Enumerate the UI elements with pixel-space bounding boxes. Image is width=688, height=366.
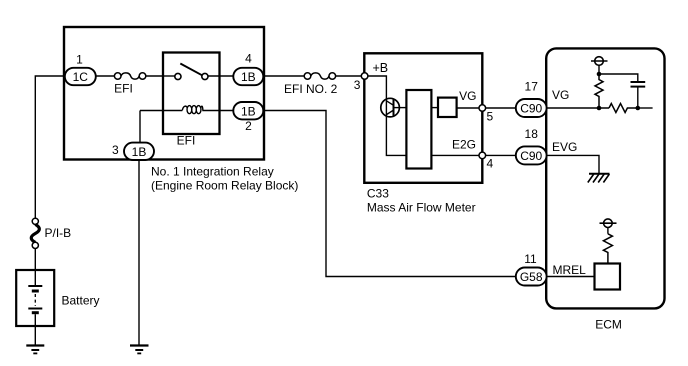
wire fuse2 to C33 [336, 75, 362, 77]
fuse EFI NO. 2 [304, 73, 311, 80]
ECM internal power symbol (MREL) [604, 219, 613, 228]
node pin 3 +B [361, 73, 368, 80]
wire MREL into driver [546, 276, 594, 278]
ECM box [546, 48, 664, 308]
svg-text:4: 4 [245, 52, 252, 66]
relay contact switch [163, 75, 175, 77]
svg-text:4: 4 [487, 157, 494, 171]
svg-text:+B: +B [373, 61, 389, 75]
svg-text:C90: C90 [520, 149, 542, 163]
svg-text:No. 1 Integration Relay: No. 1 Integration Relay [151, 164, 274, 178]
relay block box [64, 27, 264, 160]
wire +B to transistor [368, 76, 387, 100]
transistor [381, 98, 400, 117]
wire rect to square [431, 107, 438, 109]
ECM internal power symbol (VG pull-up) [595, 57, 604, 66]
svg-text:1B: 1B [132, 145, 147, 159]
svg-text:1C: 1C [73, 70, 89, 84]
svg-text:1B: 1B [241, 104, 256, 118]
junction node [597, 72, 602, 77]
svg-text:3: 3 [354, 78, 361, 92]
wire coil left down to 1B pin3 [139, 111, 141, 143]
junction node [636, 106, 641, 111]
svg-text:C33: C33 [367, 186, 389, 200]
No. 1 Integration Relay label [151, 164, 298, 192]
svg-text:C90: C90 [520, 101, 542, 115]
MAF small square [438, 98, 457, 117]
svg-text:(Engine Room Relay Block): (Engine Room Relay Block) [151, 179, 298, 193]
wire 1C to fuse EFI [96, 75, 115, 77]
svg-text:ECM: ECM [595, 317, 622, 331]
resistor R horizontal [609, 104, 638, 113]
wire link to battery [34, 249, 36, 271]
svg-text:17: 17 [525, 80, 539, 94]
svg-text:EVG: EVG [552, 140, 577, 154]
svg-text:Mass Air Flow Meter: Mass Air Flow Meter [367, 201, 476, 215]
svg-text:MREL: MREL [553, 263, 587, 277]
wire emitter down to E2G rail [386, 116, 406, 155]
connector 1B pin 3 [124, 143, 154, 160]
wire E2G node to C90 [486, 154, 516, 156]
svg-text:VG: VG [459, 89, 476, 103]
resistor R vertical [595, 74, 603, 108]
svg-text:1B: 1B [241, 70, 256, 84]
battery [16, 270, 54, 326]
svg-text:P/I-B: P/I-B [45, 226, 72, 240]
relay inner box [163, 53, 220, 135]
wire MREL: 1B2 right, down, to G58 [263, 111, 516, 277]
svg-text:18: 18 [525, 127, 539, 141]
wire power to resistor [607, 228, 609, 234]
resistor R vertical (MREL) [603, 234, 612, 264]
connector 1C pin 1 [65, 68, 96, 85]
junction node [597, 106, 602, 111]
fusible link P/I-B [31, 218, 39, 248]
svg-text:E2G: E2G [452, 138, 476, 152]
svg-text:2: 2 [245, 119, 252, 133]
svg-text:VG: VG [552, 88, 569, 102]
body ground symbol [589, 173, 610, 175]
connector C90 pin 17 [516, 99, 547, 117]
connector G58 pin 11 [516, 268, 547, 286]
wire square to VG node [457, 107, 480, 109]
connector C90 pin 18 [516, 146, 547, 164]
relay coil [140, 110, 182, 112]
fuse EFI [114, 73, 121, 80]
node pin 5 VG [479, 105, 486, 112]
svg-text:EFI NO. 2: EFI NO. 2 [284, 82, 338, 96]
svg-text:3: 3 [112, 143, 119, 157]
svg-text:EFI: EFI [177, 134, 196, 148]
svg-text:G58: G58 [520, 270, 543, 284]
ground (battery) [26, 344, 44, 346]
svg-text:5: 5 [487, 110, 494, 124]
capacitor C [631, 81, 646, 83]
Battery label [62, 294, 100, 308]
connector 1B pin 4 [233, 68, 263, 85]
wire fuse to relay inner box [146, 75, 163, 77]
ground (relay) [130, 344, 149, 346]
wire stub [638, 107, 653, 109]
wire 1B4 to fuse EFI NO.2 [263, 75, 304, 77]
wire 1B pin3 to ground [138, 160, 140, 345]
C33 box [364, 53, 482, 183]
wire power to junction [598, 65, 600, 74]
driver square [595, 264, 621, 290]
connector 1B pin 2 [233, 102, 263, 119]
svg-text:Battery: Battery [62, 294, 100, 308]
wire battery feed: 1C left to corner and down [35, 76, 65, 218]
svg-text:11: 11 [524, 252, 537, 266]
svg-text:EFI: EFI [114, 82, 133, 96]
MAF inner rect [406, 90, 431, 169]
VG wire inside ECM [546, 107, 609, 109]
svg-text:1: 1 [76, 53, 83, 67]
wire VG node to C90 [486, 107, 516, 109]
EVG wire to ground [546, 155, 599, 173]
wire E2G rect to node [431, 154, 479, 156]
wire junction to capacitor [599, 74, 638, 82]
node pin 4 E2G [479, 152, 486, 159]
